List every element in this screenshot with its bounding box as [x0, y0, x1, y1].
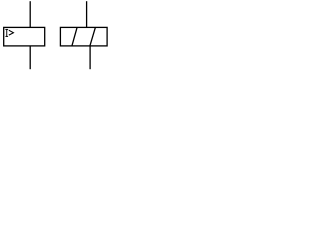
- converter box: [60, 27, 107, 46]
- wire bottom of converter box: [89, 46, 91, 69]
- wire bottom of overcurrent relay: [29, 46, 31, 69]
- overcurrent relay box: [4, 27, 45, 46]
- wire top of overcurrent relay: [29, 1, 31, 27]
- label I> : letter I bottom serif: [5, 35, 8, 37]
- label I> : letter I top serif: [5, 28, 8, 30]
- label I> : greater-than sign: [9, 30, 14, 35]
- wire top of converter box: [86, 1, 88, 27]
- label I> : letter I stem: [6, 29, 8, 37]
- diagonal slash 1: [72, 28, 77, 46]
- diagonal slash 2: [90, 28, 95, 46]
